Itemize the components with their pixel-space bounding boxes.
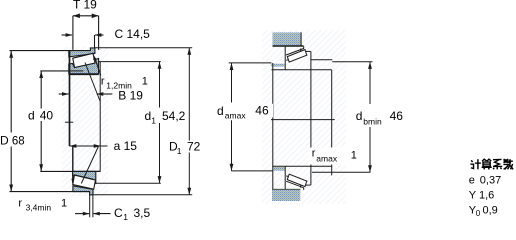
roller bottom xyxy=(73,175,96,189)
svg-text:54,2: 54,2 xyxy=(162,109,186,123)
C1 dimension arrows xyxy=(75,213,89,215)
svg-text:amax: amax xyxy=(316,154,338,164)
svg-text:r: r xyxy=(18,198,22,210)
C1 extension lines xyxy=(89,195,91,217)
cone raceway diagonal xyxy=(286,55,307,61)
svg-text:amax: amax xyxy=(225,111,247,121)
bore line top section (thick) xyxy=(69,73,99,75)
shaft shoulder strip bottom (blue) xyxy=(274,167,285,171)
svg-text:46: 46 xyxy=(390,109,404,123)
svg-text:72: 72 xyxy=(187,140,201,154)
svg-text:Y 1,6: Y 1,6 xyxy=(469,189,495,201)
bearing left face (thick) xyxy=(69,50,71,146)
cup front face bottom xyxy=(284,166,286,190)
flange step horizontal bottom xyxy=(301,184,311,186)
bearing left face lower part xyxy=(72,146,74,183)
vertical d1/B/a extension line (cone back face extended) xyxy=(99,62,101,172)
housing block top edge (bottom) xyxy=(272,189,300,191)
svg-text:r: r xyxy=(101,76,105,88)
svg-text:C: C xyxy=(114,206,123,220)
hanzi 系 xyxy=(493,159,502,169)
cone inner ring top (blue) xyxy=(69,59,99,75)
svg-text:3,5: 3,5 xyxy=(134,206,151,220)
flange step horizontal xyxy=(301,50,311,52)
svg-text:B 19: B 19 xyxy=(118,88,143,102)
da extension bottom xyxy=(232,170,273,172)
T extension line left xyxy=(72,16,74,50)
svg-text:d: d xyxy=(28,109,35,123)
hanzi 数 xyxy=(503,159,513,169)
svg-text:68: 68 xyxy=(12,136,25,148)
housing shoulder block top (blue) xyxy=(273,32,301,46)
r3,4 leader arrowhead xyxy=(71,179,74,185)
svg-text:C 14,5: C 14,5 xyxy=(115,27,151,41)
svg-text:1: 1 xyxy=(142,76,148,88)
svg-text:D: D xyxy=(0,134,9,148)
hanzi 算 xyxy=(482,159,492,169)
da dimension line xyxy=(231,63,233,103)
a dimension line xyxy=(69,145,107,147)
svg-text:d: d xyxy=(356,109,363,123)
label r amax 1 (with white bg) xyxy=(309,148,357,165)
C dimension arrows xyxy=(62,34,73,36)
svg-text:0: 0 xyxy=(476,209,481,218)
cone back face right drawing (full height) xyxy=(310,51,312,185)
svg-text:1: 1 xyxy=(123,212,128,222)
svg-text:d: d xyxy=(145,109,152,123)
d extension line top xyxy=(40,70,83,72)
da extension top / shoulder surface xyxy=(229,62,272,64)
d1 extension top xyxy=(98,61,160,63)
cup bore diagonal xyxy=(286,48,304,55)
pressure line bottom xyxy=(81,146,98,184)
hanzi 计 xyxy=(470,159,481,169)
r1,2 leader xyxy=(95,58,101,76)
cone inner ring bottom (blue) xyxy=(73,171,96,183)
cone raceway diagonal bottom xyxy=(286,176,307,182)
B dimension arrows xyxy=(59,93,69,95)
D1 extension bottom xyxy=(93,194,192,196)
housing shoulder block bottom (blue) xyxy=(272,190,300,201)
shaft end line xyxy=(331,70,333,148)
svg-text:bmin: bmin xyxy=(363,116,382,126)
svg-text:e: e xyxy=(469,174,475,186)
D dimension line xyxy=(10,51,12,133)
shaft shoulder strip top (blue) xyxy=(271,64,285,67)
D extension line top xyxy=(10,50,69,52)
d1 dimension line xyxy=(159,62,161,108)
cup back face bottom xyxy=(303,188,305,190)
roller right bottom xyxy=(287,174,306,187)
C extension line right xyxy=(94,35,96,48)
axis tick xyxy=(65,121,73,123)
svg-text:40: 40 xyxy=(40,109,54,123)
db extension bottom xyxy=(312,171,371,173)
axis line right drawing xyxy=(271,119,335,121)
faint hatch texture right drawing xyxy=(262,30,346,204)
d1 extension bottom xyxy=(96,182,161,184)
flange step vertical xyxy=(300,49,302,52)
flange step vertical bottom xyxy=(300,185,302,188)
svg-text:1: 1 xyxy=(61,198,67,210)
d dimension line xyxy=(40,71,42,109)
db extension top xyxy=(311,59,333,61)
d extension overlay inside cone xyxy=(69,70,84,72)
cup front face right drawing xyxy=(284,47,286,70)
shaft surface top xyxy=(271,69,331,71)
svg-text:0,9: 0,9 xyxy=(483,205,498,217)
cup outer ring top (blue) xyxy=(69,48,95,57)
roller right top xyxy=(287,50,306,63)
T extension line right xyxy=(98,16,100,50)
shaft surface bottom xyxy=(272,165,331,167)
D1 dimension line xyxy=(188,48,190,141)
计算系数 heading (drawn strokes) xyxy=(470,159,513,169)
housing block bottom edge xyxy=(273,45,304,47)
svg-text:1: 1 xyxy=(151,115,156,125)
d extension line bottom xyxy=(40,170,72,172)
pressure line top xyxy=(85,63,100,102)
label d bmin 46 (with white bg) xyxy=(353,105,405,127)
svg-text:d: d xyxy=(217,104,224,118)
T dimension line xyxy=(73,15,99,17)
bottom section: bore line xyxy=(73,170,101,172)
svg-text:1: 1 xyxy=(177,146,182,156)
calculation factors block xyxy=(469,159,513,218)
roller top xyxy=(73,53,95,67)
cup bore diagonal bottom xyxy=(286,181,304,188)
svg-text:a 15: a 15 xyxy=(114,139,138,153)
svg-text:r: r xyxy=(312,148,316,160)
label d amax 46 xyxy=(216,104,250,121)
D extension line bottom xyxy=(10,191,74,193)
D1 extension top xyxy=(95,47,192,49)
svg-text:1: 1 xyxy=(351,150,357,162)
faint hatch texture left drawing xyxy=(62,47,108,196)
svg-text:T 19: T 19 xyxy=(73,0,97,12)
cup outer ring bottom (blue) xyxy=(73,186,93,195)
cup back face xyxy=(303,46,305,48)
housing block right edge xyxy=(300,32,302,46)
svg-text:3,4min: 3,4min xyxy=(26,202,52,212)
svg-text:46: 46 xyxy=(255,104,269,118)
svg-text:0,37: 0,37 xyxy=(480,174,501,186)
bottom cup lower edge continues xyxy=(73,191,90,193)
shaft shoulder face (full height) xyxy=(272,63,274,190)
db dimension line xyxy=(369,62,371,104)
